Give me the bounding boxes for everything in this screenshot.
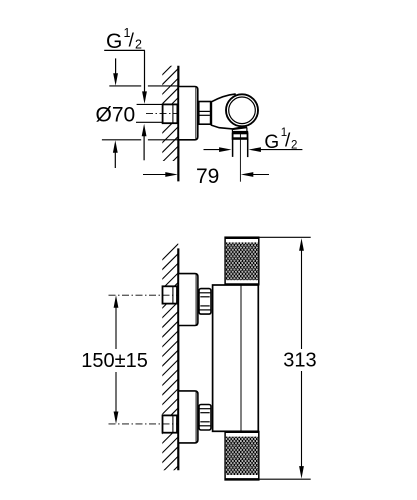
upper supply nipple hex xyxy=(163,286,178,303)
dimension 313 xyxy=(260,237,317,479)
outlet black band xyxy=(232,131,248,134)
upper connection hex nut xyxy=(199,289,211,315)
label G1/2 (top-left) xyxy=(106,26,142,53)
upper escutcheon flange xyxy=(178,274,198,326)
mixer body horn (top view) xyxy=(211,94,242,129)
arrow down to flange top (Ø70) xyxy=(113,58,118,85)
connection hex nut (top view) xyxy=(199,102,211,125)
outlet pipe xyxy=(233,139,248,157)
dimension 150±15 xyxy=(81,295,148,424)
wall face line (top view) xyxy=(177,66,179,182)
svg-text:2: 2 xyxy=(135,38,142,52)
wall face line (bottom view) xyxy=(177,248,179,470)
mixer body (bottom view) xyxy=(213,285,259,431)
outlet pipe centerline xyxy=(239,134,241,182)
outlet neck xyxy=(232,127,247,131)
leader line G1/2 top xyxy=(104,50,147,104)
upper knurled handle xyxy=(225,237,259,285)
wall hatching (top view) xyxy=(157,54,183,177)
arrow down to nipple bottom (G1/2) xyxy=(142,124,147,161)
lower supply nipple hex xyxy=(163,415,178,432)
escutcheon flange Ø70 (top view) xyxy=(178,87,197,140)
extension line flange top (Ø70) xyxy=(109,85,178,87)
centerline lower connection xyxy=(109,423,179,425)
wall hatching (bottom view) xyxy=(157,239,183,487)
extension line flange bottom (Ø70) xyxy=(102,139,178,141)
lower connection hex nut xyxy=(199,405,211,431)
dimension G1/2 outlet pipe xyxy=(204,147,303,152)
svg-text:2: 2 xyxy=(291,139,297,151)
lower knurled handle xyxy=(225,432,259,480)
svg-text:150±15: 150±15 xyxy=(81,350,148,372)
arrow up to flange bottom (Ø70) xyxy=(113,140,118,168)
extension line nipple top (G1/2) xyxy=(137,103,163,105)
knob inner ring xyxy=(229,97,256,124)
dimension 79 xyxy=(143,165,269,188)
label G1/2 (right) xyxy=(264,127,297,153)
supply nipple centerline (top view) xyxy=(146,112,178,114)
svg-text:79: 79 xyxy=(196,165,219,188)
svg-text:G: G xyxy=(264,132,279,153)
supply nipple hex (top view) xyxy=(163,104,178,123)
svg-text:313: 313 xyxy=(283,350,316,372)
svg-text:/: / xyxy=(129,31,135,52)
knob outer circle (top view) xyxy=(226,94,258,126)
svg-text:Ø70: Ø70 xyxy=(96,104,136,127)
outlet nut xyxy=(232,133,248,139)
lower escutcheon flange xyxy=(178,391,198,443)
centerline upper connection xyxy=(109,294,179,296)
extension line nipple bottom (G1/2) xyxy=(136,121,163,123)
svg-text:G: G xyxy=(106,30,122,53)
